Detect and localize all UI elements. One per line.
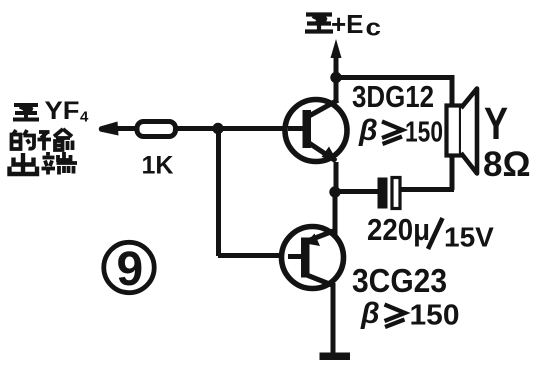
wire: top junction down to Q1 collector region	[334, 77, 339, 101]
speaker Y 8ohm: driver rectangle	[447, 106, 462, 156]
figure number 9 circled	[104, 242, 154, 292]
svg-text:3CG23: 3CG23	[352, 262, 447, 299]
wire: resistor to base junction	[174, 126, 221, 131]
svg-text:8Ω: 8Ω	[483, 145, 531, 184]
svg-text:β: β	[358, 114, 378, 147]
wire: lower horizontal to Q2 base	[218, 253, 296, 258]
wire: left arrow to resistor	[112, 126, 138, 131]
wire: right rail lower (speaker bottom to cap wire)	[450, 154, 455, 190]
wire: Q2 collector down to ground	[331, 283, 336, 354]
wire: output node to capacitor	[334, 189, 379, 194]
svg-text:3DG12: 3DG12	[352, 79, 434, 114]
svg-text:β: β	[360, 297, 380, 330]
svg-text:1K: 1K	[142, 152, 174, 180]
label: slash of /15V	[428, 218, 443, 249]
wire: right rail upper (to speaker top)	[450, 75, 455, 107]
wire: top horizontal rail to speaker	[333, 75, 452, 80]
svg-text:YF: YF	[45, 97, 80, 125]
node: junction dot at resistor/base split	[212, 123, 223, 134]
svg-text:9: 9	[117, 243, 144, 296]
wire: bottom-right horizontal (cap to right rail)	[400, 187, 454, 192]
svg-text:Y: Y	[484, 98, 508, 149]
svg-text:4: 4	[80, 109, 89, 126]
wire: base junction to Q1 base	[218, 126, 300, 131]
arrow up to +Ec	[331, 39, 342, 58]
svg-text:c: c	[366, 15, 382, 42]
arrow left to YF4 output	[99, 122, 119, 136]
label: 出 (hand-drawn)	[10, 153, 38, 174]
label: 端 (hand-drawn)	[42, 152, 78, 175]
capacitor C 220u/15V: left plate (solid)	[378, 178, 388, 209]
label: >= (Q1)	[382, 122, 403, 145]
speaker cone	[461, 89, 477, 174]
label: >= (Q2)	[385, 305, 406, 328]
ground	[320, 353, 351, 361]
label: 的 (hand-drawn)	[12, 130, 35, 149]
svg-text:+E: +E	[331, 9, 364, 39]
transistor Q2 3CG23 (PNP)	[282, 227, 344, 289]
svg-text:15V: 15V	[444, 222, 494, 253]
label: 输 (hand-drawn)	[38, 129, 73, 151]
capacitor right plate (outlined)	[392, 178, 400, 209]
label: 至 (top, hand-drawn)	[305, 15, 333, 32]
wire: output node down to Q2	[333, 190, 338, 236]
label: 至 (left line1, hand-drawn)	[13, 105, 39, 120]
svg-text:220μ: 220μ	[367, 212, 430, 247]
wire: supply vertical into top junction	[334, 52, 339, 77]
node: output junction dot	[329, 186, 340, 197]
svg-text:150: 150	[405, 117, 443, 149]
transistor Q1 3DG12 (NPN)	[285, 100, 347, 162]
node: junction dot at +Ec rail	[330, 72, 341, 83]
resistor R 1K body	[137, 122, 176, 137]
wire: base junction down	[216, 128, 221, 256]
wire: Q1 emitter down to output node	[334, 162, 339, 194]
svg-text:150: 150	[410, 300, 460, 332]
